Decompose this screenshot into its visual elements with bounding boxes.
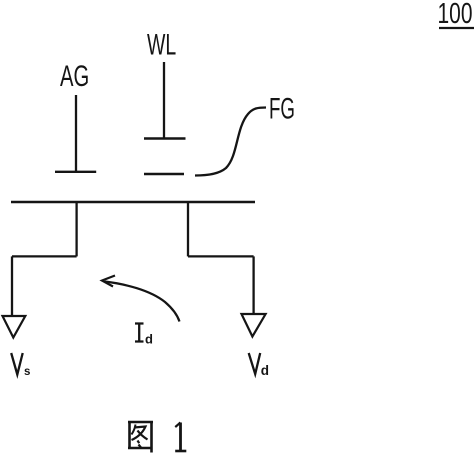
net label Vs (11, 353, 30, 378)
svg-text:FG: FG (269, 93, 295, 126)
wire source horizontal (12, 255, 77, 257)
FG leader curve (195, 108, 266, 176)
control gate plate (capacitor top) (144, 137, 186, 139)
svg-text:AG: AG (60, 60, 89, 93)
wire drain stub down (252, 256, 254, 314)
wire source stub down (11, 256, 13, 316)
svg-text:d: d (145, 332, 153, 347)
figure caption numeral 1 (175, 422, 186, 451)
wire drain horizontal (188, 255, 254, 257)
figure caption 图 1 (128, 421, 153, 453)
net label 100 (438, 0, 474, 30)
AG gate bar (55, 171, 96, 173)
current arrow Id (105, 282, 180, 322)
svg-text:WL: WL (147, 29, 176, 62)
net label Vd (249, 353, 269, 378)
wire AG vertical (75, 95, 77, 172)
source terminal arrow (3, 316, 26, 338)
channel line (11, 201, 255, 203)
label Id (135, 324, 153, 347)
svg-text:s: s (24, 366, 30, 378)
svg-text:100: 100 (438, 0, 473, 30)
svg-text:d: d (261, 363, 269, 378)
floating gate plate FG (144, 173, 184, 175)
wire source vertical from channel (75, 202, 77, 256)
wire drain vertical from channel (187, 202, 189, 256)
wire WL vertical (163, 62, 165, 138)
drain terminal arrow (242, 314, 266, 337)
